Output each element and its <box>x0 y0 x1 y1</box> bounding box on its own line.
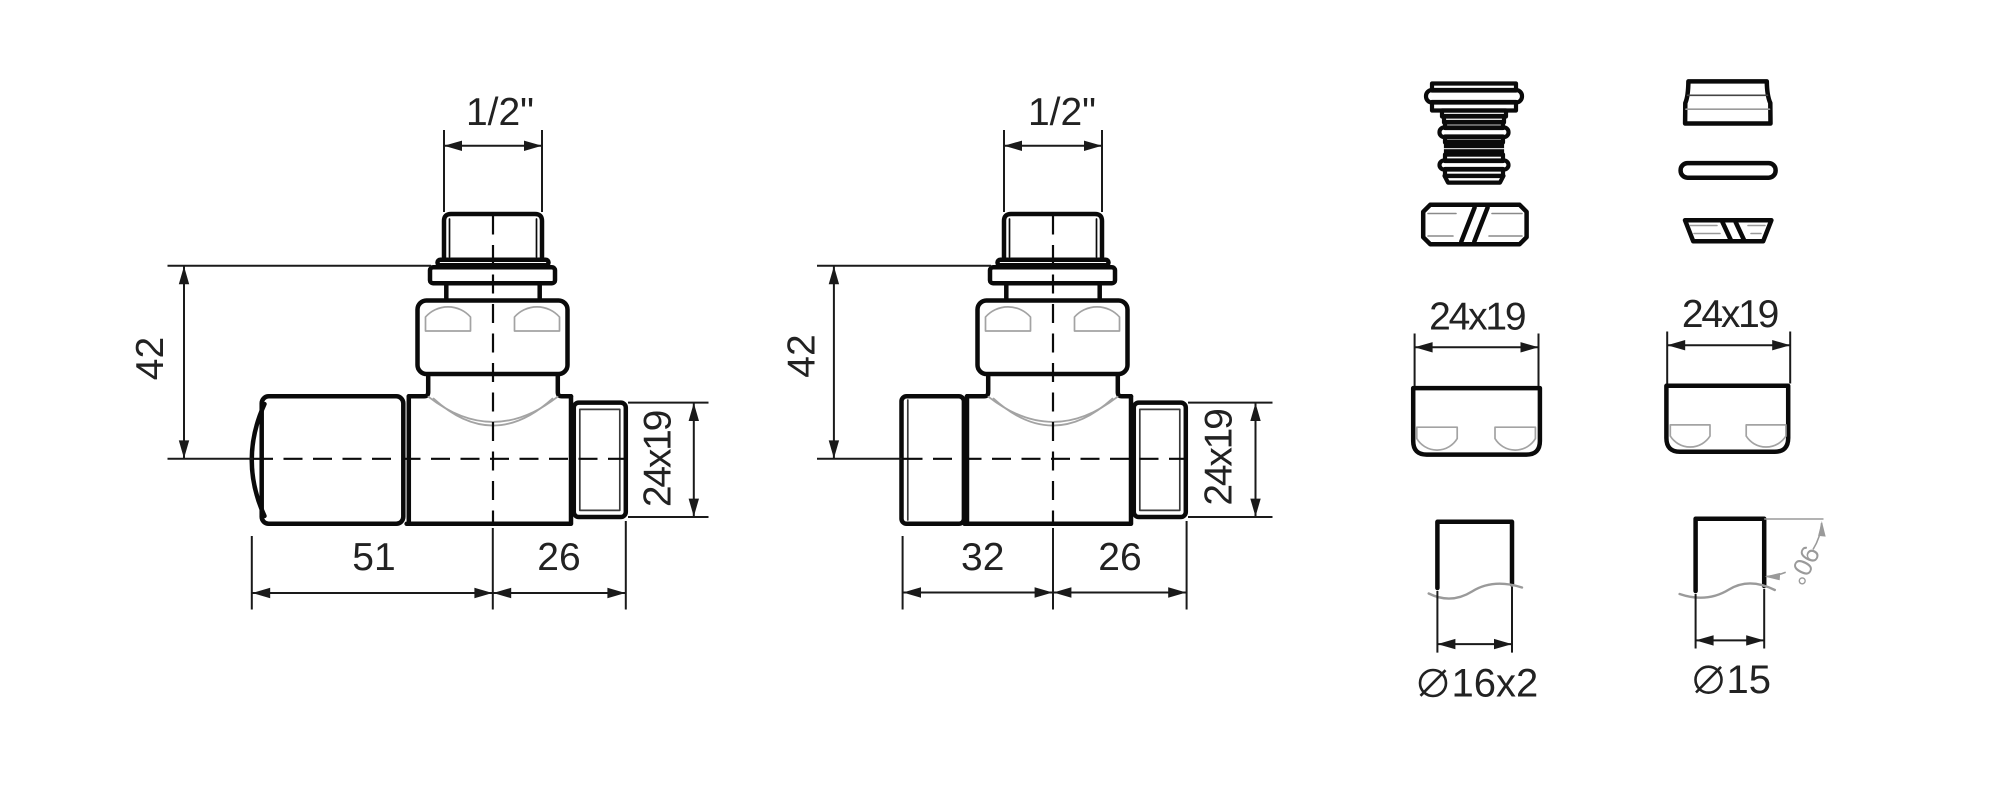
partB flat ring <box>1681 163 1776 178</box>
partA bottom taper <box>1445 176 1504 183</box>
valve2 threaded stub 1/2" <box>1004 214 1102 260</box>
valve1 neck <box>446 284 539 301</box>
partA nut flat left <box>1417 427 1457 450</box>
partA dark band2 <box>1444 149 1504 156</box>
partB angle extension line <box>1764 518 1823 520</box>
svg-text:24x19: 24x19 <box>637 411 680 507</box>
partA pipe break wave <box>1429 584 1522 599</box>
partA nut flat right <box>1495 427 1535 450</box>
partB washer edge lines <box>1690 226 1765 234</box>
partB label diameter symbol <box>1696 667 1722 693</box>
svg-text:24x19: 24x19 <box>1198 410 1241 506</box>
partB split washer <box>1685 220 1771 241</box>
partA dim 24x19 line <box>1415 346 1539 348</box>
partB cone lines <box>1688 94 1768 96</box>
partA ribbed insert top bar <box>1432 84 1516 91</box>
partB pipe <box>1696 519 1765 591</box>
partB cone ferrule <box>1685 81 1770 123</box>
valve2 dim 1/2" arrows <box>1004 141 1022 151</box>
valve1 nut wrench flat right <box>515 307 560 331</box>
svg-text:15: 15 <box>1727 658 1772 702</box>
valve1 barrel end cap arc <box>252 404 265 516</box>
RIGHT PARTS <box>1413 81 1788 598</box>
valve1 horizontal centerline <box>254 458 627 460</box>
valve1 dim 51 arrows <box>252 588 270 598</box>
svg-text:24x19: 24x19 <box>1682 293 1778 336</box>
partB dim 24x19 line <box>1667 344 1790 346</box>
partA rib1 <box>1444 116 1504 123</box>
valve1 nut wrench flat left <box>426 307 471 331</box>
partB nut flat right <box>1746 425 1786 447</box>
valve1 dim 24x19 extension lines <box>628 403 709 517</box>
partB pipe dim arrows <box>1696 635 1714 645</box>
valve1 dim 42 arrows <box>179 266 189 284</box>
valve2 dim 42 arrows <box>829 266 839 284</box>
valve2 outlet thread inner rect <box>1140 409 1180 510</box>
partA split olive <box>1423 205 1526 244</box>
valve1 dim 51-26 extension lines <box>252 521 626 610</box>
valve2 dim 24x19 line <box>1255 403 1257 517</box>
valve2 dim 24x19 arrows <box>1250 403 1260 421</box>
partB angle arc arrows <box>1818 521 1826 537</box>
partA rib2 <box>1445 122 1503 128</box>
partA rib7 <box>1445 169 1503 176</box>
partA rib4 <box>1445 137 1503 143</box>
svg-text:1/2": 1/2" <box>1028 91 1096 134</box>
valve1 collar <box>438 260 549 266</box>
valve2 stub thread lines <box>1010 219 1097 257</box>
valve1 dim 1/2" extension lines <box>444 130 542 212</box>
partB nut flat left <box>1670 425 1710 447</box>
partA dark band1 <box>1444 140 1504 149</box>
valve2 nut wrench flat right <box>1075 307 1120 331</box>
svg-text:42: 42 <box>781 334 824 377</box>
valve2 dim 1/2" extension lines <box>1004 130 1102 212</box>
partA pipe <box>1437 522 1512 588</box>
valve2 union nut <box>978 301 1128 375</box>
svg-text:16x2: 16x2 <box>1452 661 1539 705</box>
valve1 outlet stub <box>574 403 626 517</box>
valve1 dim 1/2" line <box>444 145 542 147</box>
svg-text:26: 26 <box>537 536 580 579</box>
valve1 vertical centerline <box>492 216 494 524</box>
valve1 stub thread lines <box>450 219 537 257</box>
svg-text:1/2": 1/2" <box>466 91 534 134</box>
svg-text:24x19: 24x19 <box>1429 296 1525 339</box>
valve2 nut wrench flat left <box>986 307 1031 331</box>
LEFT VALVE <box>252 214 627 524</box>
valve2 socket inner edge <box>907 400 909 520</box>
valve2 neck below nut <box>967 375 1131 397</box>
partA pipe dim arrows <box>1437 639 1455 649</box>
partA label diameter symbol <box>1420 670 1446 696</box>
partA rib5 <box>1445 155 1503 162</box>
valve2 body dome arc inner <box>994 399 1113 426</box>
valve2 dim 26 arrows <box>1053 587 1071 597</box>
partA rib6 rounded <box>1440 161 1509 170</box>
valve2 dim 32-26 extension lines <box>903 521 1187 610</box>
valve1 union nut <box>418 301 568 375</box>
valve2 horizontal centerline <box>904 458 1188 460</box>
partA olive edge lines <box>1428 214 1522 237</box>
partB dim 24x19 extension lines <box>1667 332 1790 384</box>
valve1 dim 1/2" arrows <box>444 141 462 151</box>
valve2 dim 42 extension lines <box>817 266 991 459</box>
partB dim 24x19 arrows <box>1667 340 1685 350</box>
valve2 collar <box>998 260 1109 266</box>
valve2 body dome arc outer <box>989 397 1118 422</box>
partB pipe dim line <box>1696 639 1765 641</box>
svg-text:32: 32 <box>961 536 1004 579</box>
valve2 dim 24x19 extension lines <box>1188 403 1273 517</box>
valve2 dim 32 arrows <box>903 587 921 597</box>
svg-text:26: 26 <box>1098 536 1141 579</box>
partB washer slits <box>1722 222 1744 240</box>
valve1 flange <box>430 267 555 283</box>
partA dim 24x19 extension lines <box>1415 334 1539 387</box>
valve2 outlet stub <box>1134 403 1186 517</box>
valve1 dim 26 arrows <box>493 588 511 598</box>
partB pipe break wave <box>1680 583 1775 597</box>
partB angle arc <box>1766 523 1821 577</box>
partA ribbed insert bar3 <box>1432 102 1516 111</box>
valve2 dim 42 line <box>833 266 835 459</box>
valve1 body dome arc outer <box>429 397 558 422</box>
svg-text:42: 42 <box>129 337 172 380</box>
valve1 body dome arc inner <box>434 399 553 426</box>
valve2 flange <box>990 267 1115 283</box>
valve1 body center section <box>407 396 571 524</box>
partA pipe extension lines <box>1437 587 1512 653</box>
valve2 body center section <box>965 396 1132 524</box>
ARROWHEADS <box>179 141 1826 650</box>
valve2 dim 1/2" line <box>1004 145 1102 147</box>
valve1 dim 24x19 arrows <box>689 403 699 421</box>
DIMENSIONS <box>168 130 1824 653</box>
valve1 threaded stub 1/2" <box>444 214 542 260</box>
partA rib3 rounded <box>1440 128 1509 138</box>
MIDDLE VALVE <box>902 214 1188 524</box>
valve1 dim 42 line <box>183 266 185 459</box>
partA ribbed insert wide collar <box>1426 90 1522 103</box>
valve1 barrel <box>262 396 404 524</box>
partA nut <box>1413 388 1540 455</box>
partB nut <box>1666 386 1788 452</box>
valve1 outlet thread inner rect <box>580 409 620 510</box>
valve2 neck <box>1006 284 1099 301</box>
partA dim 24x19 arrows <box>1415 342 1433 352</box>
valve2 socket <box>902 396 964 524</box>
valve2 vertical centerline <box>1052 216 1054 524</box>
partA pipe dim line <box>1437 643 1512 645</box>
partB pipe extension lines <box>1696 589 1765 649</box>
partA ribbed insert bar4 <box>1442 111 1506 117</box>
valve1 dim 24x19 line <box>693 403 695 517</box>
partA olive slit lines <box>1461 208 1487 242</box>
svg-text:51: 51 <box>352 536 395 579</box>
valve1 dim 42 extension lines <box>168 266 432 459</box>
valve1 dim 51-26 line <box>252 592 626 594</box>
valve1 neck below nut <box>409 375 571 397</box>
valve2 dim 32-26 line <box>903 592 1187 594</box>
